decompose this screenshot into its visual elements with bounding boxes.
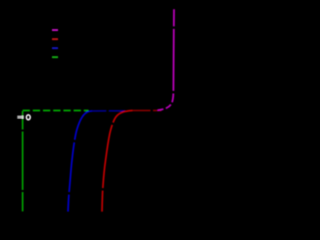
annotation "=0" : equals sign bar 2 bbox=[17, 117, 24, 118]
blue curve flat overlap segment bbox=[92, 110, 125, 112]
legend sample red bbox=[52, 38, 58, 40]
green curve: vertical step bbox=[22, 111, 24, 211]
legend sample magenta bbox=[52, 29, 58, 31]
annotation "=0" : zero glyph bbox=[26, 115, 30, 120]
blue curve bbox=[68, 111, 92, 212]
legend sample blue bbox=[52, 47, 58, 49]
red curve flat overlap segment bbox=[133, 109, 164, 111]
red curve bbox=[102, 111, 133, 212]
magenta curve bbox=[158, 9, 175, 110]
green dashed horizontal asymptote y=0 bbox=[23, 110, 89, 112]
legend sample green bbox=[52, 56, 58, 58]
annotation "=0" : equals sign bar 1 bbox=[17, 116, 24, 117]
